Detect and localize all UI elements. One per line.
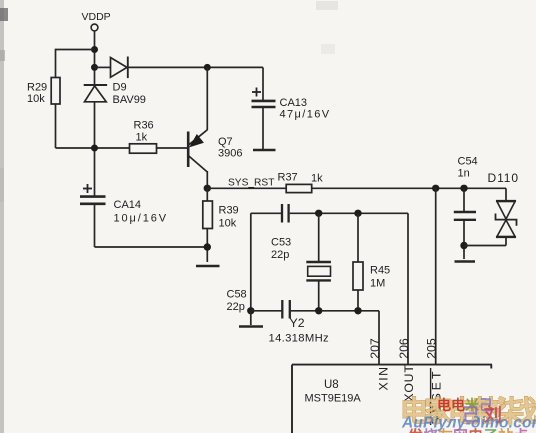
node junction R39 bottom: [204, 243, 211, 250]
transistor Q7 (PNP 3906): [188, 130, 242, 172]
ground under C58: [239, 325, 263, 328]
svg-text:C53: C53: [271, 237, 291, 249]
net label SYS_RST: [228, 178, 274, 189]
node junction emitter rail: [204, 64, 211, 71]
svg-text:10μ/16V: 10μ/16V: [114, 213, 169, 225]
wire D9 cathode rail to CA13: [128, 67, 263, 100]
svg-text:Y2: Y2: [290, 316, 305, 330]
svg-text:C54: C54: [458, 156, 478, 168]
svg-text:D110: D110: [488, 171, 519, 185]
wire CA13 to ground: [262, 108, 264, 149]
pin name XIN: [377, 366, 391, 391]
svg-text:10k: 10k: [27, 93, 45, 105]
svg-text:XIN: XIN: [377, 366, 391, 391]
wire R45 top: [357, 213, 359, 262]
svg-text:CA13: CA13: [280, 97, 308, 109]
pin 205 label: [425, 338, 439, 359]
resistor R45: [353, 262, 390, 290]
resistor R37: [278, 172, 324, 193]
pin name XOUT: [402, 364, 416, 401]
wire emitter vertical: [206, 67, 208, 130]
svg-text:1n: 1n: [458, 168, 470, 180]
svg-text:U8: U8: [324, 379, 339, 391]
resistor R29: [27, 78, 60, 106]
wire CA14 bottom to R39 bottom node: [95, 205, 208, 247]
svg-text:47μ/16V: 47μ/16V: [280, 109, 331, 121]
svg-text:22p: 22p: [271, 249, 289, 261]
diode D110 (bidirectional TVS): [488, 171, 519, 246]
wire D110 bottom to C54 node: [464, 245, 506, 247]
node junction RESET branch: [432, 185, 439, 192]
pin 207 label: [368, 338, 382, 359]
svg-text:R39: R39: [219, 205, 239, 217]
svg-text:D9: D9: [113, 82, 127, 94]
IC U8 MST9E19A: [292, 365, 492, 433]
node junction SYS_RST: [204, 185, 211, 192]
pin 206 label: [397, 338, 411, 359]
svg-text:1M: 1M: [370, 278, 385, 290]
svg-text:BAV99: BAV99: [113, 94, 146, 106]
wire RESET rail down: [435, 188, 437, 364]
svg-text:R37: R37: [278, 172, 298, 184]
node junction crystal top: [315, 210, 322, 217]
node junction D9 anode: [91, 64, 98, 71]
wire C53 left branch: [251, 213, 281, 310]
capacitor C53: [271, 204, 291, 261]
svg-text:C58: C58: [227, 289, 247, 301]
svg-text:205: 205: [425, 338, 439, 359]
wire C54 bottom to ground: [463, 221, 465, 259]
svg-text:VDDP: VDDP: [82, 11, 111, 23]
wire R45 bottom: [357, 290, 359, 311]
ground under CA13: [253, 149, 276, 152]
scan smudges (decorative): [0, 0, 338, 433]
crystal Y2: [269, 262, 331, 345]
wire to R29 top: [56, 49, 95, 78]
wire crystal vertical top: [318, 213, 320, 261]
wire XOUT rail down: [407, 213, 409, 364]
svg-text:22p: 22p: [227, 301, 245, 313]
ground under C54: [455, 260, 476, 263]
wire R39 to ground node: [206, 229, 208, 263]
capacitor CA14: [80, 184, 168, 225]
capacitor CA13: [252, 88, 331, 121]
watermark logo: [400, 395, 536, 433]
svg-text:207: 207: [368, 338, 382, 359]
wire XIN rail: [291, 311, 379, 365]
svg-text:R36: R36: [134, 120, 154, 132]
pin name RESET (active low): [429, 368, 443, 425]
diode D9 lower half (vertical, pointing up): [84, 85, 107, 102]
resistor R39: [203, 201, 239, 230]
node junction crystal bottom: [315, 307, 322, 314]
node junction R45 bottom: [354, 307, 361, 314]
node junction at VDDP branch: [91, 46, 98, 53]
wire C58 to ground: [250, 311, 252, 325]
svg-text:CA14: CA14: [114, 199, 142, 211]
wire VDDP vertical down: [94, 31, 96, 85]
power terminal VDDP: [82, 11, 111, 31]
svg-text:14.318MHz: 14.318MHz: [269, 333, 330, 345]
ground under R39: [196, 265, 220, 268]
node junction C54 top: [460, 185, 467, 192]
node junction R45 top: [354, 210, 361, 217]
svg-text:1k: 1k: [136, 132, 148, 144]
wire R29 bottom to base rail: [56, 104, 130, 148]
wire D9 to CA14: [94, 102, 96, 196]
svg-text:R45: R45: [370, 265, 390, 277]
wire C53 to XOUT rail: [290, 212, 408, 214]
svg-text:10k: 10k: [219, 218, 237, 230]
wire SYS_RST to R39: [206, 188, 208, 201]
diode D9 upper half (horizontal): [95, 57, 146, 107]
wire R37 to D110: [312, 187, 506, 189]
wire crystal bottom: [318, 282, 320, 311]
wire R36 to Q7 base: [157, 147, 188, 149]
svg-text:3906: 3906: [218, 148, 242, 160]
svg-text:SYS_RST: SYS_RST: [228, 178, 274, 189]
resistor R36: [130, 120, 157, 154]
svg-text:MST9E19A: MST9E19A: [305, 393, 362, 405]
capacitor C58: [227, 289, 290, 319]
capacitor C54: [454, 156, 478, 220]
node junction base rail: [91, 145, 98, 152]
node junction C54 bottom: [460, 242, 467, 249]
svg-text:1k: 1k: [311, 173, 323, 185]
svg-text:发烧友网电子站点: 发烧友网电子站点: [407, 427, 528, 433]
svg-text:Q7: Q7: [218, 136, 233, 148]
wire SYS_RST to R37: [207, 187, 286, 189]
wire collector down: [206, 171, 208, 188]
svg-text:R29: R29: [27, 82, 47, 94]
svg-text:206: 206: [397, 338, 411, 359]
node junction C58 left: [247, 307, 254, 314]
